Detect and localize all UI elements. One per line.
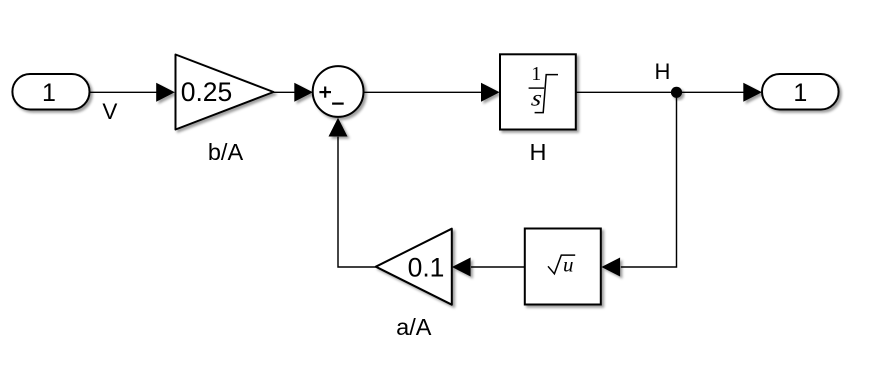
svg-text:1: 1: [42, 79, 56, 107]
radical sign: [548, 255, 575, 274]
arrowhead into Out1: [743, 83, 762, 102]
gain a/A (0.1): [376, 229, 452, 305]
junction node H: [671, 87, 682, 98]
arrowhead into gain b/A: [156, 83, 175, 102]
sum block: [313, 66, 364, 117]
svg-text:1: 1: [793, 79, 807, 107]
integrator block H: [500, 54, 576, 129]
wire from sqrt block to gain a/A: [471, 266, 525, 268]
sqrt block: [525, 229, 601, 305]
wire from junction down to sqrt block: [621, 92, 677, 267]
svg-text:b/A: b/A: [208, 139, 244, 165]
svg-text:0.1: 0.1: [408, 253, 445, 283]
svg-text:1: 1: [531, 63, 541, 85]
svg-text:H: H: [530, 139, 547, 165]
svg-text:a/A: a/A: [396, 314, 432, 340]
arrowhead into gain a/A: [452, 258, 471, 277]
minus sign: [332, 102, 344, 104]
wire from gain a/A up to sum: [338, 137, 376, 267]
arrowhead into sum (left): [294, 83, 313, 102]
svg-text:H: H: [655, 59, 671, 84]
wire from integrator H to Out1: [576, 91, 744, 93]
arrowhead into sum (bottom): [329, 118, 348, 137]
fraction bar: [529, 87, 545, 89]
svg-text:0.25: 0.25: [181, 77, 233, 107]
integrator denominator s: [530, 86, 544, 111]
wire from gain b/A to sum: [274, 91, 296, 93]
svg-text:V: V: [102, 99, 117, 124]
wire from sum to integrator H: [364, 91, 482, 93]
gain b/A (0.25): [176, 55, 274, 130]
integral sign: [535, 75, 558, 113]
inport block In1: [12, 74, 89, 110]
arrowhead into sqrt block: [601, 258, 620, 277]
outport block Out1: [762, 74, 839, 110]
plus sign: [319, 91, 331, 93]
arrowhead into integrator H: [481, 83, 500, 102]
svg-text:u: u: [563, 253, 574, 277]
wire from In1 to gain b/A: [90, 91, 158, 93]
